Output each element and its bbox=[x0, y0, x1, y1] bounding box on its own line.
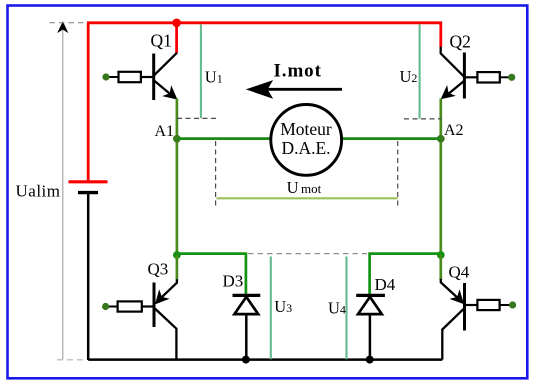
svg-text:Ualim: Ualim bbox=[16, 181, 61, 200]
svg-text:Q1: Q1 bbox=[151, 31, 172, 51]
wire Q2 emitter to A2 to lower junction (green) bbox=[439, 99, 442, 256]
wire Q4 collector stub (green) bbox=[439, 255, 442, 280]
svg-text:Umot: Umot bbox=[287, 178, 322, 197]
transistor Q2 bbox=[441, 47, 478, 99]
node lower-right junction bbox=[437, 251, 445, 259]
dashed U1 bbox=[177, 117, 217, 119]
svg-text:Q2: Q2 bbox=[450, 32, 471, 52]
resistor Q1 base bbox=[102, 72, 140, 82]
wire junction to D4 (green) bbox=[370, 254, 441, 296]
dimension line Ualim (left measuring line) bbox=[50, 21, 87, 360]
wire top rail (red, +) bbox=[87, 21, 442, 24]
current arrow I.mot bbox=[246, 80, 342, 99]
svg-text:Q4: Q4 bbox=[449, 263, 470, 282]
measurement U1 line bbox=[200, 25, 202, 119]
motor M (Moteur D.A.E.) bbox=[271, 104, 342, 175]
dashed Umot left bbox=[215, 141, 217, 206]
svg-text:D3: D3 bbox=[223, 272, 244, 291]
node D3 anode junction bbox=[242, 356, 250, 364]
svg-text:A2: A2 bbox=[444, 122, 464, 139]
svg-text:Q3: Q3 bbox=[148, 260, 169, 279]
resistor Q2 base bbox=[477, 72, 515, 82]
wire A1 to motor (green) bbox=[177, 137, 271, 140]
dashed middle link bbox=[248, 253, 367, 255]
svg-text:D4: D4 bbox=[375, 275, 396, 294]
measurement Umot bracket bbox=[217, 197, 398, 199]
diode D3 bbox=[233, 295, 261, 359]
wire Q1 emitter to A1 to lower junction (green) bbox=[176, 99, 179, 256]
transistor Q4 bbox=[441, 279, 478, 360]
wire left supply vertical (red) bbox=[87, 23, 90, 182]
transistor Q3 bbox=[142, 279, 177, 359]
wire Q3 collector stub (green) bbox=[176, 255, 179, 281]
wire junction to D3 (green) bbox=[177, 254, 246, 296]
dashed U2 bbox=[404, 118, 441, 120]
node top junction (red dot) bbox=[172, 19, 181, 28]
svg-text:D.A.E.: D.A.E. bbox=[281, 138, 330, 158]
node A2 bbox=[437, 135, 445, 143]
dashed Umot right bbox=[397, 141, 399, 206]
wire motor to A2 (green) bbox=[342, 137, 441, 140]
measurement U4 line bbox=[345, 257, 347, 360]
wire bottom rail (black) bbox=[88, 358, 442, 361]
battery Ualim bbox=[69, 182, 108, 360]
node D4 anode junction bbox=[366, 356, 374, 364]
resistor Q3 base bbox=[102, 301, 142, 311]
measurement U3 line bbox=[270, 257, 272, 360]
diode D4 bbox=[356, 295, 385, 359]
measurement U2 line bbox=[419, 25, 421, 119]
wire Q1 collector branch (red) bbox=[175, 23, 178, 53]
wire Q2 collector branch (red) bbox=[439, 23, 442, 47]
resistor Q4 base bbox=[477, 300, 516, 310]
node lower-left junction bbox=[173, 251, 181, 259]
svg-text:A1: A1 bbox=[155, 123, 175, 140]
svg-text:Moteur: Moteur bbox=[280, 119, 332, 139]
transistor Q1 bbox=[140, 53, 178, 100]
svg-text:I.mot: I.mot bbox=[274, 61, 322, 82]
node A1 bbox=[173, 135, 181, 143]
